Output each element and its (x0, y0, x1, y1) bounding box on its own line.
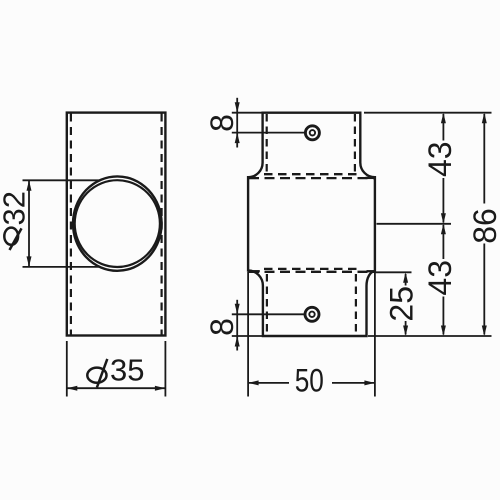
svg-text:43: 43 (422, 141, 458, 177)
svg-text:25: 25 (384, 286, 420, 322)
svg-text:8: 8 (204, 114, 240, 132)
svg-text:8: 8 (204, 318, 240, 336)
svg-text:43: 43 (422, 260, 458, 296)
svg-text:35: 35 (110, 352, 144, 387)
svg-text:32: 32 (0, 191, 32, 225)
svg-text:86: 86 (467, 208, 500, 244)
svg-text:50: 50 (295, 364, 324, 399)
